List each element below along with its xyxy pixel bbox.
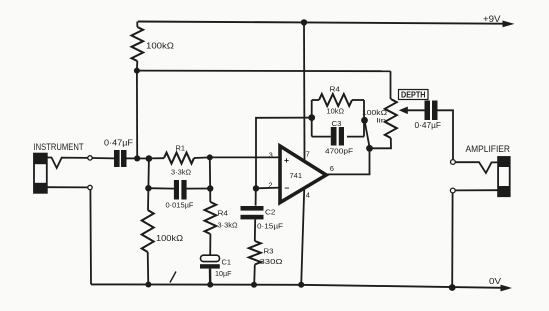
svg-text:−: − [284, 183, 289, 193]
junction dot R1 right / pin3 node [207, 154, 213, 160]
terminal circle instrument tip [88, 156, 92, 160]
terminal circle amplifier tip [451, 160, 456, 165]
instrument jack socket [34, 154, 47, 193]
wire: pin 4 to ground rail [301, 190, 304, 285]
junction dot pin2 / C2 node [253, 185, 259, 191]
wire: 0V ground rail [91, 284, 502, 287]
terminal circle amplifier sleeve [450, 188, 455, 193]
resistor R1 3.3k [149, 157, 164, 159]
wire: tip terminal to input capacitor [92, 157, 114, 159]
svg-text:6: 6 [330, 164, 334, 173]
svg-text:7: 7 [306, 149, 310, 158]
svg-text:100kΩ: 100kΩ [156, 234, 183, 243]
svg-text:0·47µF: 0·47µF [104, 139, 133, 148]
svg-text:100kΩ: 100kΩ [362, 108, 387, 117]
wire: loop right node down to pot bottom node [365, 120, 370, 148]
pot wiper arrow [405, 109, 425, 111]
svg-text:100kΩ: 100kΩ [146, 41, 174, 50]
wire: amplifier sleeve lead [455, 189, 498, 191]
svg-text:4700pF: 4700pF [325, 147, 353, 156]
wire: feedback tap vertical (pin2 up to loop) [256, 118, 312, 189]
svg-text:2: 2 [268, 181, 272, 190]
capacitor C2 0.15uF [255, 188, 257, 205]
svg-text:3·3kΩ: 3·3kΩ [171, 167, 191, 176]
svg-text:C3: C3 [332, 119, 342, 128]
capacitor 0.47uF input [114, 150, 120, 167]
wire: amplifier tip lead with squiggle [455, 162, 498, 173]
junction dot +9V rail / pin7 [301, 19, 307, 25]
svg-text:3·3kΩ: 3·3kΩ [218, 221, 238, 230]
svg-text:3: 3 [269, 150, 273, 159]
DEPTH label box [399, 90, 429, 100]
arrowhead 0V rail [501, 285, 513, 292]
junction dot input node [134, 155, 140, 161]
wire: op-amp output pin 6 [326, 148, 369, 175]
amplifier jack socket [498, 157, 510, 196]
wire: bias vertical down to input node [136, 71, 138, 159]
junction dot loop right [361, 117, 368, 124]
svg-text:AMPLIFIER: AMPLIFIER [466, 144, 511, 154]
terminal circle instrument sleeve [88, 185, 92, 189]
svg-text:0V: 0V [489, 276, 501, 286]
svg-text:DEPTH: DEPTH [401, 91, 426, 100]
wire: +9V supply rail [138, 22, 504, 24]
wire: sleeve down to ground rail [89, 190, 92, 285]
junction dot node Q (R1 left) [146, 155, 153, 162]
svg-text:+9V: +9V [483, 14, 501, 24]
junction dot pot bottom node [366, 145, 373, 152]
wire: pin2 node to op-amp pin 2 [256, 187, 281, 190]
wire: pin3 node down to 0.015uF node [209, 157, 211, 188]
svg-text:+: + [284, 155, 289, 165]
capacitor C1 10uF electrolytic [201, 255, 220, 261]
resistor 100k (top left, +9V to bias rail) [136, 22, 138, 28]
wire: node Q down to node S [147, 159, 150, 189]
wire: pin3 node to op-amp pin 3 [210, 156, 281, 158]
junction dot ground rail / amplifier sleeve [449, 284, 456, 291]
svg-text:lin: lin [377, 117, 387, 124]
svg-text:R1: R1 [176, 144, 186, 153]
wire: instrument tip lead with squiggle [47, 158, 87, 169]
svg-text:10µF: 10µF [215, 269, 232, 278]
resistor 100k (lower bias) [147, 188, 149, 210]
wire: instrument sleeve lead [47, 186, 87, 188]
svg-text:R4: R4 [330, 85, 341, 94]
svg-text:0·47µF: 0·47µF [415, 121, 442, 130]
stray tick mark on ground rail [170, 272, 176, 283]
capacitor 0.47uF output [425, 101, 431, 121]
potentiometer 100k lin DEPTH [390, 71, 392, 99]
svg-text:0·15µF: 0·15µF [257, 222, 283, 231]
junction dot 0.015uF right node [207, 185, 213, 191]
svg-text:R4: R4 [218, 209, 229, 218]
op-amp U1 741 triangle [280, 146, 326, 203]
wire: pin 7 to +9V rail [303, 22, 306, 160]
wire: node P to node Q [137, 157, 149, 159]
feedback loop left side [311, 100, 313, 137]
junction dot loop left [308, 114, 315, 121]
junction dot ground rail / C1 [207, 282, 213, 288]
junction dot ground rail / lower 100k [145, 282, 151, 288]
junction dot 0.015uF left node [145, 185, 151, 191]
capacitor 0.015uF [148, 187, 174, 189]
feedback loop right side [363, 100, 365, 137]
svg-text:C2: C2 [265, 207, 276, 216]
svg-text:INSTRUMENT: INSTRUMENT [34, 142, 84, 152]
svg-text:330Ω: 330Ω [260, 257, 283, 266]
arrowhead +9V rail [503, 21, 515, 28]
svg-text:10kΩ: 10kΩ [327, 107, 345, 116]
svg-text:741: 741 [290, 173, 303, 180]
resistor R3 330 ohm [249, 241, 261, 265]
svg-text:4: 4 [306, 191, 310, 200]
resistor R4 3.3k (vertical) [209, 189, 211, 203]
junction dot ground rail / pin4 [298, 282, 304, 288]
capacitor C3 4700pF [312, 136, 331, 138]
wire: bias rail (second horizontal rail) [137, 70, 391, 73]
svg-text:0·015µF: 0·015µF [166, 200, 194, 209]
wire: amplifier sleeve down to ground rail [451, 193, 453, 288]
junction dot ground rail / R3 [251, 282, 257, 288]
wire: output cap to amplifier tip terminal [438, 110, 454, 159]
wire: input cap to node [127, 157, 137, 159]
junction dot bias rail / 100k [134, 68, 140, 74]
resistor R4 10k (feedback) [312, 99, 319, 101]
svg-text:C1: C1 [222, 258, 232, 267]
svg-text:R3: R3 [264, 246, 274, 255]
